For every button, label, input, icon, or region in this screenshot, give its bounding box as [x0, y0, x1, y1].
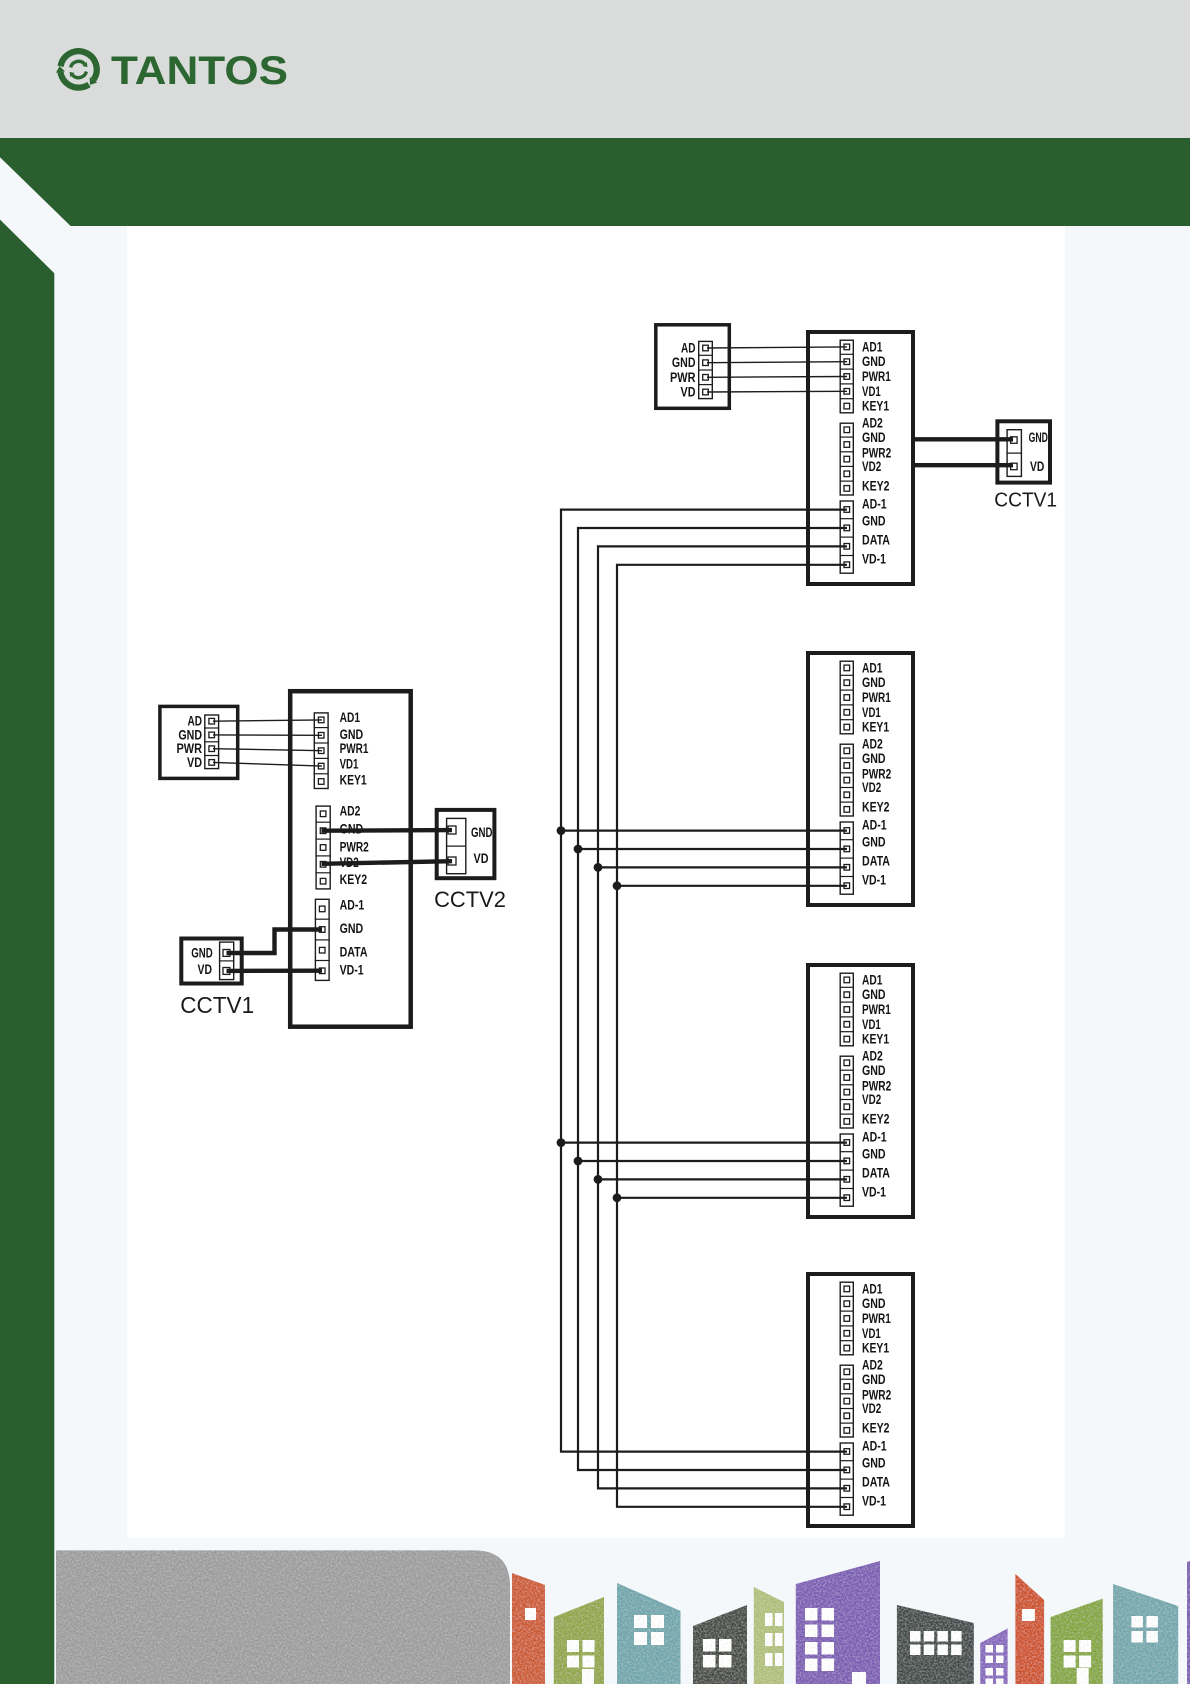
- svg-text:GND: GND: [862, 514, 886, 529]
- svg-text:GND: GND: [191, 946, 213, 961]
- svg-text:GND: GND: [862, 1147, 886, 1162]
- svg-text:VD-1: VD-1: [862, 1494, 886, 1509]
- svg-text:DATA: DATA: [862, 1475, 890, 1490]
- svg-text:KEY1: KEY1: [862, 720, 889, 735]
- svg-text:AD-1: AD-1: [862, 818, 887, 833]
- svg-text:TANTOS: TANTOS: [111, 49, 288, 93]
- svg-text:VD-1: VD-1: [862, 552, 886, 567]
- svg-text:PWR1: PWR1: [862, 369, 891, 384]
- svg-text:VD: VD: [187, 755, 202, 770]
- svg-text:AD-1: AD-1: [340, 897, 365, 912]
- svg-text:AD-1: AD-1: [862, 1130, 887, 1145]
- svg-text:KEY2: KEY2: [340, 872, 368, 887]
- svg-text:GND: GND: [862, 1296, 886, 1311]
- svg-text:AD2: AD2: [862, 416, 883, 431]
- svg-text:GND: GND: [471, 825, 493, 840]
- svg-text:GND: GND: [862, 675, 886, 690]
- svg-text:AD2: AD2: [862, 737, 883, 752]
- svg-text:GND: GND: [1029, 430, 1048, 445]
- svg-text:GND: GND: [672, 355, 696, 370]
- svg-text:VD: VD: [681, 385, 696, 400]
- svg-text:VD1: VD1: [862, 705, 881, 720]
- svg-text:AD: AD: [681, 341, 696, 356]
- svg-text:PWR: PWR: [670, 370, 696, 385]
- svg-text:AD1: AD1: [862, 972, 883, 987]
- svg-text:AD2: AD2: [862, 1358, 883, 1373]
- svg-text:GND: GND: [862, 1456, 886, 1471]
- svg-text:KEY2: KEY2: [862, 1112, 890, 1127]
- svg-text:PWR2: PWR2: [340, 840, 369, 855]
- svg-text:GND: GND: [862, 1063, 886, 1078]
- svg-text:AD1: AD1: [862, 1281, 883, 1296]
- svg-text:VD2: VD2: [862, 1092, 881, 1107]
- svg-text:VD1: VD1: [340, 756, 359, 771]
- svg-text:PWR1: PWR1: [862, 690, 891, 705]
- svg-text:VD: VD: [474, 851, 489, 866]
- svg-text:VD-1: VD-1: [862, 873, 886, 888]
- svg-text:CCTV1: CCTV1: [994, 489, 1057, 511]
- svg-text:VD1: VD1: [862, 1326, 881, 1341]
- svg-text:AD2: AD2: [862, 1049, 883, 1064]
- svg-text:GND: GND: [862, 751, 886, 766]
- svg-text:VD2: VD2: [862, 459, 881, 474]
- svg-text:VD-1: VD-1: [340, 962, 364, 977]
- svg-text:GND: GND: [862, 835, 886, 850]
- svg-text:CCTV2: CCTV2: [434, 887, 506, 912]
- svg-text:KEY1: KEY1: [862, 1032, 889, 1047]
- svg-text:VD: VD: [198, 962, 213, 977]
- svg-text:AD1: AD1: [340, 710, 361, 725]
- svg-text:AD-1: AD-1: [862, 497, 887, 512]
- svg-text:AD1: AD1: [862, 339, 883, 354]
- svg-text:GND: GND: [862, 987, 886, 1002]
- svg-text:AD1: AD1: [862, 660, 883, 675]
- svg-text:PWR1: PWR1: [862, 1002, 891, 1017]
- svg-text:PWR1: PWR1: [862, 1311, 891, 1326]
- svg-text:KEY1: KEY1: [862, 1341, 889, 1356]
- svg-text:PWR1: PWR1: [340, 741, 369, 756]
- svg-text:CCTV1: CCTV1: [180, 992, 254, 1018]
- svg-text:KEY2: KEY2: [862, 800, 890, 815]
- svg-text:DATA: DATA: [862, 1166, 890, 1181]
- svg-text:KEY1: KEY1: [862, 399, 889, 414]
- svg-text:GND: GND: [340, 921, 364, 936]
- svg-text:VD: VD: [1030, 459, 1044, 474]
- svg-text:GND: GND: [862, 1372, 886, 1387]
- svg-text:AD-1: AD-1: [862, 1439, 887, 1454]
- svg-text:DATA: DATA: [862, 854, 890, 869]
- svg-text:VD1: VD1: [862, 384, 881, 399]
- svg-text:AD2: AD2: [340, 803, 361, 818]
- svg-text:VD2: VD2: [862, 780, 881, 795]
- svg-text:VD-1: VD-1: [862, 1185, 886, 1200]
- svg-text:VD1: VD1: [862, 1017, 881, 1032]
- svg-text:GND: GND: [178, 727, 202, 742]
- svg-text:KEY1: KEY1: [340, 773, 367, 788]
- svg-text:DATA: DATA: [862, 533, 890, 548]
- svg-text:GND: GND: [862, 430, 886, 445]
- svg-text:GND: GND: [862, 354, 886, 369]
- svg-text:DATA: DATA: [340, 944, 368, 959]
- svg-text:KEY2: KEY2: [862, 1421, 890, 1436]
- svg-text:KEY2: KEY2: [862, 479, 890, 494]
- svg-text:GND: GND: [340, 727, 364, 742]
- svg-text:VD2: VD2: [862, 1401, 881, 1416]
